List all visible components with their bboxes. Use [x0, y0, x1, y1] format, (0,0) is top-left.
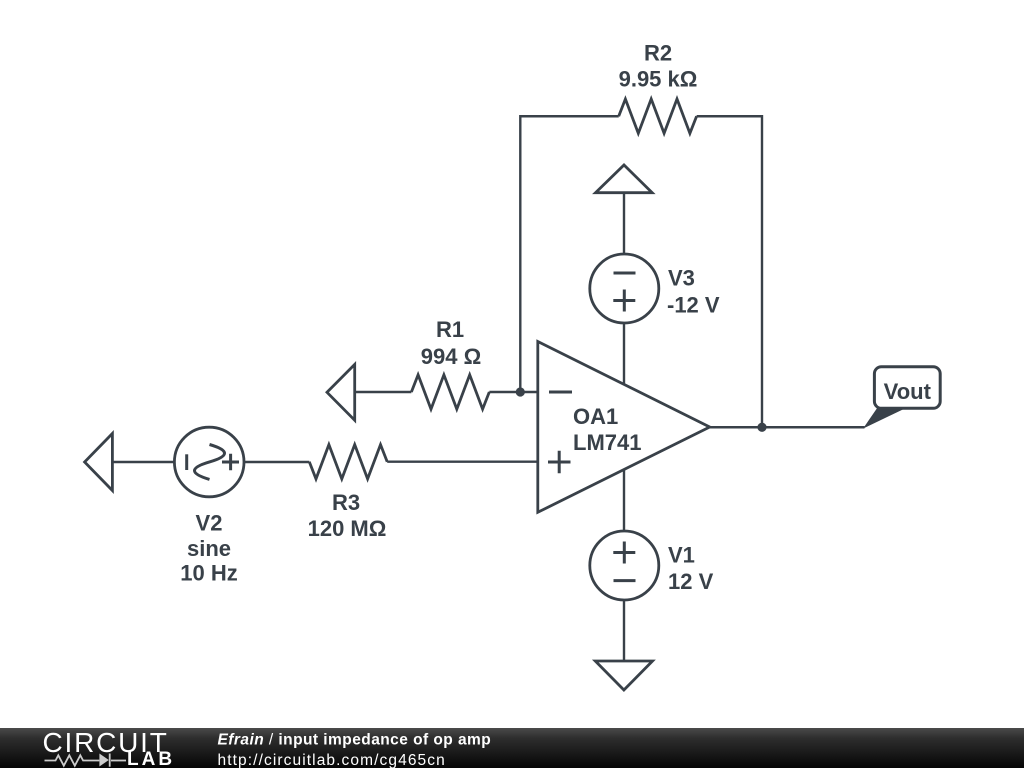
svg-text:10 Hz: 10 Hz: [180, 561, 237, 586]
ground flag (below V1): [595, 661, 652, 690]
svg-text:9.95 kΩ: 9.95 kΩ: [619, 67, 698, 92]
op-amp non-inverting input marker (plus): [548, 451, 571, 474]
svg-text:LAB: LAB: [127, 749, 175, 768]
svg-text:-12 V: -12 V: [667, 292, 720, 317]
net flag Vout box: [874, 367, 940, 409]
V3 minus sign: [614, 272, 636, 275]
svg-text:R3: R3: [332, 490, 360, 515]
op-amp OA1 triangle: [538, 342, 710, 513]
voltage source V3 (circle): [590, 254, 659, 323]
wire R1 to inverting input pin: [489, 391, 538, 393]
power flag arrow (V+ supply above V3): [596, 165, 653, 193]
svg-text:sine: sine: [187, 536, 231, 561]
wire power arrow to V3 top: [623, 193, 625, 255]
junction dot: inverting node: [516, 387, 525, 396]
ground flag (at V2 left): [85, 434, 113, 491]
svg-text:R2: R2: [644, 40, 672, 65]
resistor R1: [411, 375, 489, 409]
svg-text:LM741: LM741: [573, 430, 641, 455]
svg-text:Vout: Vout: [884, 379, 932, 404]
resistor R3: [309, 445, 387, 479]
wire top-right horizontal (R2 right lead): [697, 115, 762, 117]
svg-text:120 MΩ: 120 MΩ: [308, 516, 387, 541]
wire op-amp negative supply pin to V1: [623, 470, 625, 532]
V3 plus sign: [613, 290, 635, 312]
wire top-left horizontal (R2 left lead): [520, 115, 618, 117]
svg-text:R1: R1: [436, 317, 464, 342]
svg-text:V2: V2: [196, 510, 223, 535]
V2 minus terminal bar (rotated minus): [185, 454, 188, 470]
ground flag (at R1 left): [327, 364, 355, 420]
svg-text:OA1: OA1: [573, 404, 618, 429]
wire V3 bottom to op-amp positive supply pin: [623, 323, 625, 385]
V2 plus sign: [222, 454, 239, 471]
junction dot: output node: [757, 423, 766, 432]
wire op-amp output: [710, 426, 865, 428]
wire V2 to R3: [244, 461, 309, 463]
svg-text:http://circuitlab.com/cg465cn: http://circuitlab.com/cg465cn: [218, 752, 446, 768]
logo resistor-diode glyph: [45, 754, 127, 767]
wire right vertical (feedback down to output node): [761, 115, 763, 427]
wire R3 to non-inverting input pin: [387, 461, 538, 463]
wire left vertical (feedback down to inverting node): [519, 115, 521, 392]
svg-text:994 Ω: 994 Ω: [421, 344, 481, 369]
svg-text:V3: V3: [668, 266, 695, 291]
wire ground to V2: [112, 461, 174, 463]
voltage source V2 sine (circle): [174, 427, 244, 497]
svg-text:V1: V1: [668, 543, 695, 568]
resistor R2: [619, 99, 697, 133]
op-amp inverting input marker (minus): [549, 391, 572, 394]
svg-text:12 V: 12 V: [668, 569, 714, 594]
wire V1 to bottom ground: [623, 600, 625, 661]
net flag Vout tail: [863, 408, 907, 429]
V2 sine waveform glyph: [195, 445, 225, 480]
V1 minus sign: [614, 579, 636, 582]
voltage source V1 (circle): [590, 531, 659, 600]
logo diode triangle: [99, 754, 108, 767]
V1 plus sign: [613, 542, 635, 564]
wire ground to R1: [355, 391, 412, 393]
svg-text:Efrain / input impedance of op: Efrain / input impedance of op amp: [218, 732, 492, 749]
